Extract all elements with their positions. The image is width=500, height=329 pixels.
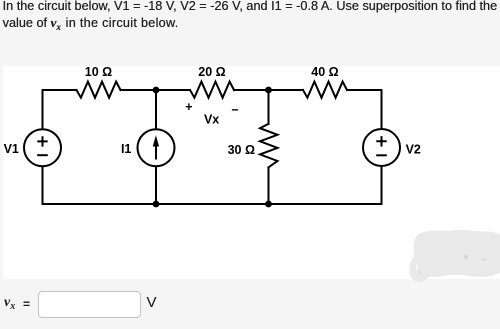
eraser speck 2: [483, 258, 486, 261]
voltage source V1 circle: [24, 129, 61, 166]
wire top-right segment to corner: [347, 89, 382, 91]
node A junction dot (top, I1 branch): [153, 87, 160, 94]
resistor R 30Ω vertical zigzag: [260, 124, 278, 168]
node B junction dot (top, 30Ω branch): [265, 87, 272, 94]
wire top-left horizontal segment: [43, 89, 77, 91]
answer equals sign: [23, 297, 30, 311]
svg-text:10 Ω: 10 Ω: [85, 65, 112, 79]
node C junction dot (bottom, I1 branch): [153, 201, 160, 208]
white circuit panel: [3, 66, 500, 279]
voltage source V2 circle: [363, 129, 400, 166]
wire top segment between 20Ω and node B: [234, 89, 303, 91]
wire left vertical upper (top wire to V1): [42, 90, 44, 129]
wire top segment between 10Ω and node A: [121, 89, 191, 91]
wire bottom horizontal: [43, 203, 382, 205]
eraser blob white streak highlight: [416, 265, 417, 271]
V2 minus sign: [377, 154, 386, 156]
svg-text:30 Ω: 30 Ω: [228, 143, 255, 157]
wire 30Ω branch lower: [268, 167, 270, 204]
I1 arrow shaft: [155, 144, 157, 159]
I1 arrowhead: [153, 135, 159, 146]
wire right vertical lower (V2 to bottom wire): [381, 166, 383, 204]
wire I1 branch upper: [155, 90, 157, 129]
svg-text:Vx: Vx: [204, 112, 219, 126]
answer input box: [38, 291, 141, 318]
node D junction dot (bottom, 30Ω branch): [265, 201, 272, 208]
svg-text:20 Ω: 20 Ω: [198, 65, 225, 79]
resistor R 20Ω zigzag: [190, 82, 234, 98]
svg-text:+: +: [185, 100, 192, 114]
svg-text:I1: I1: [121, 142, 131, 156]
resistor R 10Ω zigzag: [77, 82, 121, 98]
svg-text:V1: V1: [4, 142, 19, 156]
V2 plus sign: [377, 137, 385, 145]
V1 minus sign: [38, 154, 47, 156]
question text: [3, 0, 500, 32]
current source I1 circle: [138, 129, 175, 166]
V1 plus sign: [38, 137, 46, 145]
wire 30Ω branch upper: [268, 90, 270, 124]
svg-text:40 Ω: 40 Ω: [311, 65, 338, 79]
eraser speck 3: [419, 271, 421, 273]
resistor R 40Ω zigzag: [303, 82, 347, 98]
svg-text:−: −: [231, 103, 238, 117]
svg-text:V2: V2: [406, 142, 421, 156]
eraser scribble blob: [409, 230, 500, 282]
wire I1 branch lower: [155, 166, 157, 204]
wire left vertical lower (V1 to bottom wire): [42, 166, 44, 204]
answer label v_x: [4, 295, 15, 311]
wire right vertical upper (top wire to V2): [381, 90, 383, 129]
answer unit V: [147, 294, 157, 311]
eraser speck 1: [464, 255, 468, 259]
